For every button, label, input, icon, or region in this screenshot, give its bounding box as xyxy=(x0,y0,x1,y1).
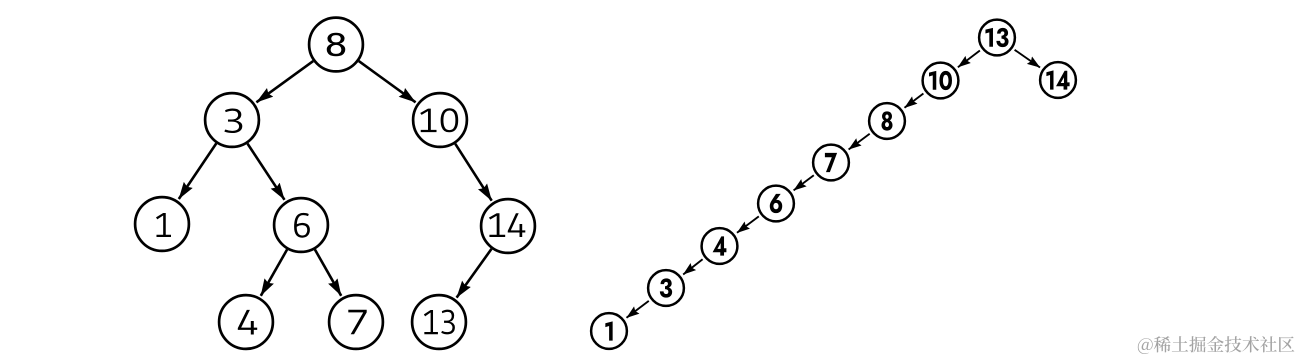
wire edge 14 to 13 left tree xyxy=(457,249,492,298)
node 7 right chain xyxy=(813,145,849,181)
node 8 right chain xyxy=(869,103,905,139)
wire edge 6 to 4 right chain xyxy=(737,216,759,232)
wire edge 3 to 1 left tree xyxy=(179,143,217,199)
node 13 right chain xyxy=(979,20,1015,56)
node 4 left tree xyxy=(219,295,273,349)
node 1 right chain xyxy=(591,313,627,349)
watermark juejin community xyxy=(1138,336,1295,354)
wire edge 3 to 6 left tree xyxy=(248,144,285,200)
node 8 left tree xyxy=(309,18,363,72)
node 3 right chain xyxy=(648,270,684,306)
wire edge 10 to 8 right chain xyxy=(905,94,924,108)
node 13 left tree xyxy=(412,295,466,349)
wire edge 13 to 10 right chain xyxy=(958,51,980,68)
node 6 right chain xyxy=(758,186,794,222)
node 3 left tree xyxy=(205,93,259,147)
wire edge 7 to 6 right chain xyxy=(794,175,814,190)
wire edge 6 to 4 left tree xyxy=(261,250,287,296)
wire edge 6 to 7 left tree xyxy=(315,250,341,296)
wire edge 8 to 3 left tree xyxy=(256,61,313,102)
wire edge 4 to 3 right chain xyxy=(683,259,702,274)
wire edge 10 to 14 left tree xyxy=(455,144,492,201)
node 7 left tree xyxy=(329,295,383,349)
node 10 left tree xyxy=(413,93,467,147)
node 4 right chain xyxy=(702,228,738,264)
node 1 left tree xyxy=(135,197,189,251)
node 10 right chain xyxy=(923,63,959,99)
node 6 left tree xyxy=(274,198,328,252)
wire edge 13 to 14 right chain xyxy=(1015,50,1040,68)
wire edge 8 to 7 right chain xyxy=(849,134,870,150)
node 14 right chain xyxy=(1040,62,1076,98)
wire edge 3 to 1 right chain xyxy=(627,301,649,318)
node 14 left tree xyxy=(481,199,535,253)
wire edge 8 to 10 left tree xyxy=(359,61,416,102)
